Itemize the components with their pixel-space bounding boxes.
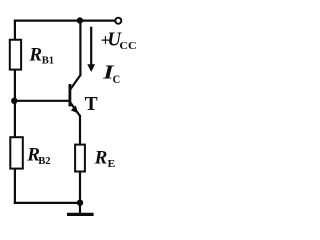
wire emitter to ground xyxy=(79,172,81,203)
resistor RE xyxy=(75,145,85,172)
node junction dot base (divider tap) xyxy=(11,98,17,104)
resistor RB2 xyxy=(10,137,22,168)
resistor RB1 xyxy=(10,40,21,70)
svg-text:B1: B1 xyxy=(42,55,54,67)
wire emitter vertical xyxy=(79,115,81,145)
wire bottom xyxy=(14,202,80,204)
transistor T collector lead xyxy=(70,74,81,89)
transistor T emitter arrowhead xyxy=(71,106,78,114)
supply terminal (open circle) xyxy=(115,18,121,24)
transistor T base bar xyxy=(69,84,72,106)
node junction dot top (collector branch to supply) xyxy=(77,17,83,23)
svg-text:E: E xyxy=(108,159,116,170)
current arrow IC xyxy=(90,27,92,66)
ground xyxy=(67,213,94,216)
wire left rail xyxy=(14,20,16,204)
svg-text:T: T xyxy=(85,94,98,115)
svg-text:R: R xyxy=(28,44,42,65)
wire top rail xyxy=(14,20,115,22)
transistor T emitter lead xyxy=(70,102,80,116)
svg-text:CC: CC xyxy=(119,40,136,52)
wire base xyxy=(14,100,69,102)
svg-text:C: C xyxy=(113,72,121,86)
wire ground stub xyxy=(79,203,81,214)
wire collector vertical xyxy=(79,21,81,76)
svg-text:R: R xyxy=(94,148,108,169)
node junction dot ground xyxy=(77,200,83,206)
svg-text:B2: B2 xyxy=(38,155,51,167)
